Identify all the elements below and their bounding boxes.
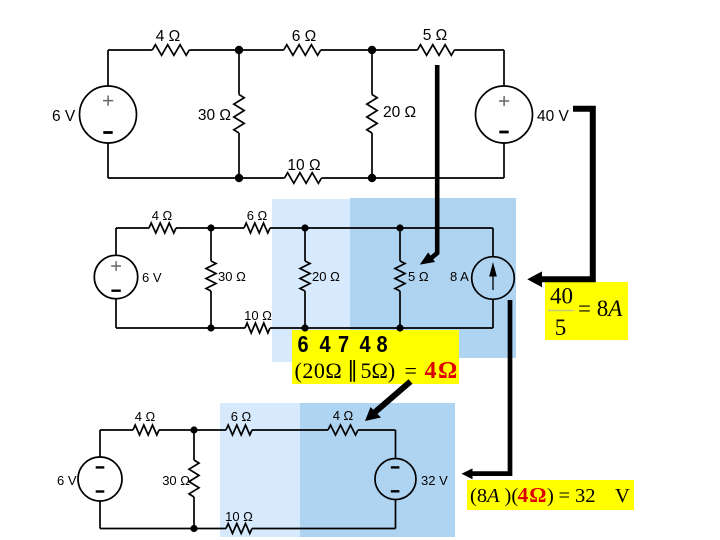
svg-text:40: 40 [550,284,573,309]
voltage source 6V circle (circuit 1) [80,86,137,143]
wire top rail right (circuit 3) [358,429,396,431]
svg-text:4 Ω: 4 Ω [152,208,173,223]
resistor R 4ohm right (circuit 3) [328,425,358,435]
wire top-right (circuit 1) [454,49,504,51]
yellow annotation box 1 (middle) [292,330,459,384]
resistor R 4ohm left (circuit 3) [133,425,159,435]
annotation 6 47 48 [298,330,388,357]
wire right branch to 40V source (circuit 1) [503,50,505,86]
wire top rail left (circuit 2) [116,227,149,229]
arrow 1 shaft (5ohm top to 5ohm middle) [431,65,437,258]
annotation (20 || 5) = 4 ohm [295,357,459,384]
svg-text:30 Ω: 30 Ω [162,473,190,488]
top bar of 32V source (circuit 3) [391,466,400,468]
resistor R 10ohm (circuit 2) [245,323,270,333]
svg-text:40 V: 40 V [537,108,570,125]
node dot bottom-left (circuit 1) [235,174,243,182]
bottom bar of 6V source (circuit 3) [96,490,105,492]
svg-text:5 Ω: 5 Ω [408,269,429,284]
resistor R 30ohm vertical (circuit 2) [206,261,216,291]
wire bottom rail (circuit 1) [108,177,285,179]
resistor R 4ohm (circuit 2) [149,223,176,233]
svg-text:20 Ω: 20 Ω [383,104,416,121]
wire 30ohm branch top (circuit 2) [210,228,212,261]
svg-text:4: 4 [360,330,371,357]
svg-text:6 Ω: 6 Ω [231,409,252,424]
bottom bar of 32V source (circuit 3) [391,490,400,492]
wire bottom rail left (circuit 3) [100,528,226,530]
resistor R 20ohm vertical (circuit 2) [300,261,310,291]
svg-text:6 Ω: 6 Ω [247,208,268,223]
svg-text:=: = [405,358,417,383]
node dot bottom 30ohm (circuit 2) [207,324,214,331]
annotation 40/5 = 8A (yellow box 2) [548,284,623,341]
svg-text:5 Ω: 5 Ω [423,27,448,44]
node dot top 5ohm (circuit 2) [396,224,403,231]
node dot bottom-right (circuit 1) [368,174,376,182]
voltage source 40V circle (circuit 1) [476,86,533,143]
arrow 2 head [527,271,542,287]
arrow 3 head [365,407,381,421]
wire bottom rail left (circuit 2) [116,327,245,329]
resistor R 6ohm (circuit 1) [284,45,321,56]
resistor R 30ohm vertical (circuit 3) [189,460,199,497]
plus sign of 6V source (circuit 1) [103,96,113,106]
wire 5ohm branch bottom (circuit 2) [399,291,401,328]
wire 20ohm branch top (circuit 2) [304,228,306,261]
wire below 32V source (circuit 3) [395,500,397,529]
wire 30ohm branch top (circuit 3) [193,430,195,460]
top bar of 6V source (circuit 3) [96,466,105,468]
highlight rect light blue (middle circuit) [272,199,350,362]
voltage source 32V circle (circuit 3) [375,459,416,500]
wire below 6V source (circuit 3) [99,501,101,529]
resistor R 5ohm vertical (circuit 2) [395,261,405,291]
wire 30ohm branch bottom (circuit 1) [238,133,240,178]
wire bottom rail right (circuit 1) [322,177,505,179]
voltage source 6V circle (circuit 2) [94,255,137,298]
yellow annotation box 3 ((8A)(4ohm)=32V) [467,480,634,510]
svg-text:30 Ω: 30 Ω [198,107,231,124]
svg-text:10 Ω: 10 Ω [244,308,272,323]
wire below 8A source (circuit 2) [492,300,494,328]
wire below 6V source (circuit 1) [107,143,109,178]
node dot top-right (circuit 1) [368,46,376,54]
wire right branch to 32V source (circuit 3) [395,430,397,459]
node dot top 30ohm (circuit 2) [207,224,214,231]
svg-text:∥: ∥ [347,357,358,382]
wire right branch to 8A source (circuit 2) [492,228,494,257]
svg-text:30 Ω: 30 Ω [218,269,246,284]
wire bottom rail right (circuit 3) [252,528,396,530]
svg-text:6 Ω: 6 Ω [292,28,317,45]
svg-text:(20Ω: (20Ω [295,358,343,383]
wire 20ohm branch top (circuit 1) [371,50,373,95]
wire 30ohm branch bottom (circuit 2) [210,291,212,328]
resistor R 20ohm vertical (circuit 1) [367,95,377,134]
wire top-left (circuit 1 top rail) [108,49,152,51]
svg-text:10 Ω: 10 Ω [225,509,253,524]
wire left branch to 6V source (circuit 3) [99,430,101,457]
highlight rect dark blue (bottom circuit) [300,403,455,537]
resistor R 30ohm vertical (circuit 1) [234,95,244,134]
wire left branch to 6V source (circuit 1) [107,50,109,86]
node dot bottom 20ohm (circuit 2) [301,324,308,331]
node dot bottom 5ohm (circuit 2) [396,324,403,331]
arrow 3 shaft (4ohm result to circuit 3) [374,382,411,414]
wire top rail (circuit 3) [159,429,226,431]
wire 5ohm branch top (circuit 2) [399,228,401,261]
arrow 1 head [420,252,435,264]
wire top rail left (circuit 3) [100,429,133,431]
svg-text:32 V: 32 V [421,473,448,488]
node dot top-left (circuit 1) [235,46,243,54]
node dot top 20ohm (circuit 2) [301,224,308,231]
resistor R 10ohm (circuit 1) [285,173,322,184]
wire 20ohm branch bottom (circuit 2) [304,291,306,328]
highlight rect light blue (bottom circuit) [220,403,300,537]
arrow 4 shaft (8A down to 32V note) [472,300,510,474]
annotation (8A)(4ohm) = 32V (yellow box 3) [470,483,630,507]
svg-text:4 Ω: 4 Ω [156,28,181,45]
wire below 40V source (circuit 1) [503,143,505,178]
voltage source 6V circle (circuit 3) [78,457,122,501]
svg-text:8: 8 [377,330,388,357]
arrow 2 shaft (40V to 8A source) [542,109,593,279]
resistor R 6ohm (circuit 3) [226,425,252,435]
svg-text:4Ω: 4Ω [425,358,459,384]
plus sign of 6V source (circuit 2) [111,261,121,271]
svg-text:4 Ω: 4 Ω [333,408,354,423]
resistor R 4ohm (circuit 1) [152,45,189,56]
wire top rail (circuit 2) [176,227,244,229]
node dot bottom (circuit 3) [190,525,197,532]
plus sign of 40V source (circuit 1) [499,96,509,106]
wire top rail right (circuit 2) [270,227,493,229]
wire left branch to 6V source (circuit 2) [115,228,117,255]
svg-text:5Ω): 5Ω) [361,358,396,383]
svg-text:6 V: 6 V [52,108,76,125]
arrow inside 8A current source [490,265,496,291]
svg-text:8 A: 8 A [450,269,469,284]
wire bottom rail right (circuit 2) [270,327,493,329]
yellow annotation box 2 (40/5=8A) [545,282,628,340]
highlight rect dark blue (middle circuit) [350,198,516,358]
svg-text:6 V: 6 V [57,473,77,488]
svg-text:6: 6 [298,330,309,357]
svg-text:10 Ω: 10 Ω [287,157,320,174]
resistor R 6ohm (circuit 2) [244,223,270,233]
arrow 4 head [462,468,473,479]
minus sign of 6V source (circuit 2) [111,290,120,292]
svg-text:7: 7 [338,330,349,357]
node dot top (circuit 3) [190,426,197,433]
svg-text:6 V: 6 V [142,270,162,285]
wire 30ohm branch bottom (circuit 3) [193,497,195,529]
resistor R 5ohm (circuit 1) [417,45,454,56]
svg-text:20 Ω: 20 Ω [312,269,340,284]
wire below 6V source (circuit 2) [115,299,117,328]
minus sign of 6V source (circuit 1) [103,131,112,134]
wire top rail between 4ohm and 6ohm [189,49,283,51]
svg-text:= 8A: = 8A [578,296,623,321]
wire top rail between 6ohm and 5ohm [321,49,418,51]
wire 30ohm branch top (circuit 1) [238,50,240,95]
svg-text:4: 4 [320,330,331,357]
current source 8A circle (circuit 2) [472,257,515,300]
wire 20ohm branch bottom (circuit 1) [371,133,373,178]
minus sign of 40V source (circuit 1) [499,131,508,134]
svg-text:4 Ω: 4 Ω [135,409,156,424]
resistor R 10ohm (circuit 3) [226,524,252,534]
wire top rail mid (circuit 3) [252,429,328,431]
svg-text:5: 5 [555,315,567,340]
